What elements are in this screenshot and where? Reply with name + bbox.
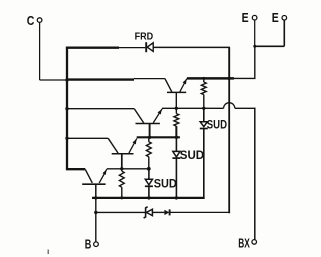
wire W2 collector segment bbox=[67, 137, 108, 139]
wire W3 collector segment bbox=[67, 108, 134, 110]
node diode-line B junction bbox=[94, 211, 97, 214]
wire Q4 base lead bbox=[175, 92, 177, 108]
diode FRD cathode bar bbox=[145, 42, 147, 52]
transistor Q1 emitter arrow bbox=[102, 169, 106, 175]
node E1-E2 junction bbox=[253, 45, 256, 48]
wire R3 bottom lead bbox=[203, 95, 205, 109]
wire C bus vertical (thick) bbox=[66, 47, 68, 169]
wire B to zener bbox=[96, 211, 145, 213]
node W0 SUD3 junction bbox=[147, 196, 150, 199]
terminal E2 pad bbox=[282, 15, 287, 20]
node W2 Q3-base junction bbox=[148, 136, 151, 139]
resistor R3 bbox=[201, 82, 206, 95]
transistor Q1 emitter diagonal bbox=[99, 169, 107, 183]
svg-text:SUD: SUD bbox=[207, 118, 227, 132]
node W0 SUD2 junction bbox=[175, 196, 178, 199]
node W1 Q2-base junction bbox=[120, 167, 123, 170]
wire Q3 base lead bbox=[149, 124, 151, 138]
svg-text:FRD: FRD bbox=[135, 31, 154, 43]
svg-text:BX: BX bbox=[238, 237, 250, 251]
wire R2 bottom lead bbox=[175, 126, 177, 137]
wire SUD1 cathode lead bbox=[203, 129, 205, 199]
wire zener to diode bbox=[152, 211, 164, 213]
wire R0 top lead bbox=[121, 169, 123, 171]
wire SUD2 cathode lead bbox=[175, 158, 177, 198]
wire right vertical lower bbox=[228, 78, 230, 213]
transistor Q4 base bar bbox=[167, 91, 186, 93]
wire R0 bottom lead bbox=[121, 187, 123, 198]
wire W1 emitter segment bbox=[107, 168, 149, 170]
node W2-bus junction bbox=[65, 137, 68, 140]
diode D2 cathode bar bbox=[169, 209, 171, 215]
wire R1 top lead bbox=[148, 137, 150, 142]
transistor Q2 base bar bbox=[112, 153, 134, 155]
wire SUD3 anode lead bbox=[148, 169, 150, 180]
transistor Q3 emitter diagonal bbox=[153, 109, 162, 123]
wire Q1 base lead bbox=[95, 184, 97, 198]
speck (scan artifact) bbox=[48, 250, 49, 255]
wire diode to right vertical bbox=[170, 211, 231, 213]
node W3-bus junction bbox=[65, 107, 68, 110]
wire C bus top (thick) bbox=[66, 47, 119, 49]
wire Q2 base lead bbox=[121, 154, 123, 169]
wire E1 to rail bbox=[254, 46, 256, 78]
wire C bus bottom arm (thick) bbox=[66, 168, 85, 170]
diode SUD1 bbox=[200, 122, 207, 127]
wire W3 hop over right vertical bbox=[224, 103, 235, 109]
transistor Q2 emitter diagonal bbox=[129, 139, 137, 154]
transistor Q1 base bar bbox=[82, 183, 105, 185]
node C-bus junction bbox=[65, 78, 68, 81]
transistor Q4 emitter diagonal bbox=[180, 79, 187, 92]
wire E rail thin bbox=[234, 77, 256, 79]
wire BX vertical bbox=[254, 108, 256, 240]
transistor Q3 collector diagonal bbox=[134, 109, 143, 123]
wire W2 emitter segment (thick) bbox=[137, 136, 180, 138]
wire SUD2 anode lead bbox=[175, 137, 177, 151]
node right vertical E-rail junction bbox=[228, 77, 231, 80]
wire R2 top lead bbox=[175, 108, 177, 113]
node W3 Q4-base junction bbox=[175, 107, 178, 110]
node W0 B-lead junction bbox=[94, 196, 97, 199]
resistor R2 bbox=[174, 114, 179, 127]
transistor Q3 base bar bbox=[136, 123, 160, 125]
terminal C pad bbox=[37, 18, 42, 23]
transistor Q4 collector diagonal bbox=[165, 79, 172, 92]
wire C lead down bbox=[39, 22, 41, 80]
transistor Q4 emitter arrow bbox=[183, 79, 187, 85]
wire W3 emitter segment bbox=[162, 107, 224, 109]
diode zener ZD cathode bar bbox=[144, 207, 148, 218]
resistor R1 bbox=[146, 142, 151, 157]
wire R1 bottom lead bbox=[148, 157, 150, 169]
diode FRD triangle bbox=[147, 43, 153, 52]
wire W0 thick bbox=[92, 197, 205, 199]
terminal E1 pad bbox=[252, 15, 257, 20]
wire FRD to right corner bbox=[153, 46, 230, 48]
transistor Q1 collector diagonal bbox=[85, 169, 92, 183]
wire R3 top lead bbox=[203, 78, 205, 82]
wire SUD3 cathode lead bbox=[148, 186, 150, 198]
transistor Q2 collector diagonal bbox=[108, 138, 118, 153]
diode D2 triangle bbox=[164, 210, 169, 215]
wire C lead to bus bbox=[40, 79, 68, 81]
diode SUD3 bbox=[145, 179, 152, 185]
node E-rail R3 junction bbox=[202, 77, 205, 80]
wire B lead bbox=[95, 198, 97, 242]
terminal BX pad bbox=[252, 240, 257, 245]
terminal B pad bbox=[94, 242, 99, 247]
svg-text:E: E bbox=[272, 10, 279, 25]
svg-text:B: B bbox=[85, 237, 92, 251]
diode SUD2 bbox=[173, 151, 180, 157]
wire top to FRD bbox=[119, 47, 145, 49]
wire E rail thick bbox=[187, 77, 234, 80]
wire E2 lead down bbox=[283, 20, 285, 46]
wire Q4 collector thick bbox=[67, 78, 134, 80]
wire right vertical upper bbox=[228, 47, 230, 78]
wire E2 to E1 bbox=[255, 45, 284, 47]
node W2 R2 junction bbox=[175, 136, 178, 139]
svg-text:SUD: SUD bbox=[180, 148, 205, 162]
wire SUD1 anode lead bbox=[203, 108, 205, 122]
wire Q4 collector thin bbox=[134, 78, 165, 80]
node W0 R0 junction bbox=[120, 196, 123, 199]
wire E1 lead down bbox=[254, 20, 256, 46]
svg-text:C: C bbox=[27, 13, 35, 28]
diode zener ZD triangle bbox=[146, 209, 152, 215]
node W3 R3 junction bbox=[202, 107, 205, 110]
svg-text:SUD: SUD bbox=[154, 176, 177, 190]
wire W3 to BX corner bbox=[235, 107, 256, 109]
svg-text:E: E bbox=[242, 10, 249, 25]
transistor Q3 emitter arrow bbox=[158, 109, 162, 115]
node W1 R1 junction bbox=[147, 167, 151, 171]
transistor Q2 emitter arrow bbox=[132, 139, 136, 145]
resistor R0 bbox=[119, 171, 124, 187]
